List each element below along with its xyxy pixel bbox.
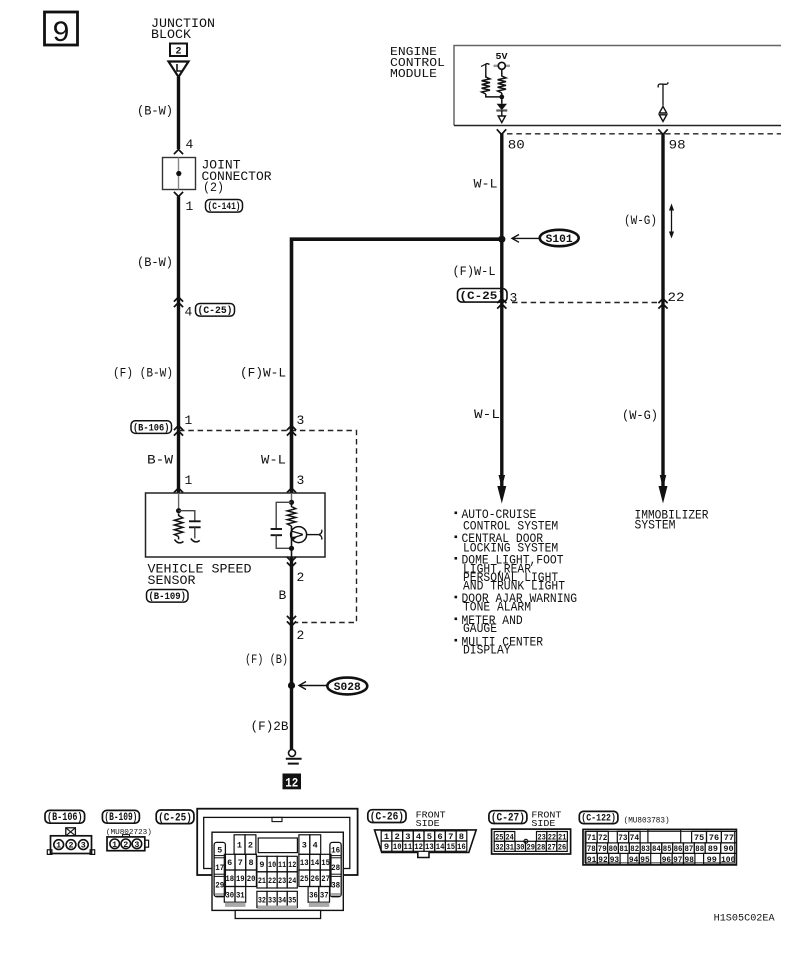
svg-text:75: 75 (694, 834, 704, 843)
svg-text:94: 94 (629, 856, 638, 865)
svg-text:1: 1 (237, 842, 242, 851)
connector face C-26 label (368, 810, 446, 829)
svg-text:93: 93 (610, 856, 619, 865)
svg-text:90: 90 (723, 845, 733, 854)
svg-text:95: 95 (640, 856, 649, 865)
svg-text:(F)2B: (F)2B (251, 719, 289, 734)
svg-text:(F) (B-W): (F) (B-W) (113, 366, 173, 381)
ECM pin 80 (497, 129, 525, 152)
dashed C-25 connector line (512, 302, 658, 304)
svg-text:87: 87 (685, 845, 694, 854)
connector C-25 crossing, pin 4 (174, 297, 193, 320)
connector face C-25 housing (212, 832, 343, 918)
sensor internal: load resistor right (287, 493, 295, 526)
svg-text:10: 10 (268, 861, 276, 870)
svg-text:4: 4 (186, 137, 194, 152)
svg-text:16: 16 (331, 846, 340, 856)
C-26 pin cells (1-8 / 9-16) (381, 831, 467, 852)
wire label B-W (147, 453, 173, 468)
svg-text:19: 19 (236, 875, 245, 884)
svg-text:(C-122): (C-122) (581, 813, 616, 825)
svg-text:72: 72 (598, 834, 607, 843)
svg-text:(W-G): (W-G) (624, 213, 657, 228)
svg-text:84: 84 (652, 845, 661, 854)
svg-text:78: 78 (587, 845, 596, 854)
wire label (B-W) upper (137, 104, 173, 119)
diagram code (714, 913, 776, 925)
junction block tab symbol (triangle) (169, 62, 189, 78)
svg-text:S101: S101 (546, 234, 573, 246)
svg-text:(B-109): (B-109) (104, 812, 137, 824)
svg-text:24: 24 (288, 877, 296, 886)
svg-text:11: 11 (404, 842, 413, 852)
svg-text:BLOCK: BLOCK (151, 27, 191, 42)
C-25 pin cells row 1 (1,2 / blank / 3,4) (234, 835, 321, 855)
svg-text:12: 12 (414, 842, 423, 852)
svg-text:16: 16 (457, 842, 466, 852)
wire label (B-W) lower (137, 255, 173, 270)
wire label W-L lower (474, 407, 500, 422)
svg-text:(F)W-L: (F)W-L (240, 366, 286, 381)
svg-text:B-W: B-W (147, 453, 173, 468)
svg-text:28: 28 (537, 843, 545, 852)
pin 4 of joint connector (174, 137, 194, 154)
svg-text:83: 83 (641, 845, 650, 854)
svg-text:15: 15 (321, 859, 330, 868)
svg-text:(B-W): (B-W) (137, 255, 173, 270)
svg-text:9: 9 (384, 842, 389, 852)
wire B from sensor pin 2 (290, 557, 293, 750)
svg-text:7: 7 (238, 859, 243, 868)
svg-text:3: 3 (297, 473, 305, 488)
wire W-G from ECM pin 98 (661, 133, 664, 487)
internal resistor (left branch) (481, 64, 504, 100)
svg-text:71: 71 (587, 834, 596, 843)
svg-text:4: 4 (185, 305, 193, 320)
svg-text:13: 13 (300, 859, 309, 868)
C-25 pin cells row 2 (6-8 / 9-12 / 13-15) (224, 854, 331, 872)
connector face C-25 outer shell (197, 809, 357, 875)
svg-text:3: 3 (81, 842, 86, 851)
svg-text:80: 80 (508, 138, 525, 153)
connector face C-25 label (156, 810, 194, 825)
svg-text:SIDE: SIDE (416, 818, 440, 829)
pin 1 of speed sensor (174, 473, 193, 493)
svg-text:(C-25): (C-25) (158, 813, 192, 825)
svg-text:1: 1 (185, 413, 193, 428)
wire W-L from ECM pin 80 (500, 133, 503, 487)
svg-text:8: 8 (249, 859, 254, 868)
wire B-W (junction block to joint connector) (177, 77, 180, 149)
svg-text:5: 5 (217, 846, 222, 856)
svg-text:GAUGE: GAUGE (463, 622, 497, 636)
svg-text:(B-106): (B-106) (47, 812, 83, 824)
svg-text:37: 37 (320, 891, 329, 900)
svg-text:32: 32 (258, 896, 266, 905)
svg-text:22: 22 (668, 290, 685, 305)
connector B-109 crossing, pin 2 (287, 616, 304, 643)
wire label B (279, 588, 287, 603)
wire label (F)W-L (middle) (240, 366, 286, 381)
splice S028 (288, 678, 367, 695)
ECM internal connector at pin 98 (658, 82, 668, 121)
svg-text:21: 21 (258, 877, 266, 886)
svg-text:27: 27 (321, 875, 330, 884)
connector face B-109 (106, 829, 152, 851)
svg-text:23: 23 (278, 877, 286, 886)
internal diode (496, 93, 507, 123)
svg-text:4: 4 (313, 842, 318, 851)
svg-text:1: 1 (186, 199, 194, 214)
svg-text:(C-141): (C-141) (208, 201, 241, 213)
svg-text:26: 26 (558, 843, 566, 852)
destination list (W-L) (455, 508, 578, 658)
svg-text:31: 31 (506, 843, 514, 852)
svg-text:89: 89 (708, 845, 718, 854)
svg-text:SENSOR: SENSOR (148, 573, 196, 588)
wire label W-L upper (474, 177, 498, 192)
svg-text:2: 2 (297, 570, 305, 585)
svg-text:14: 14 (311, 859, 320, 868)
svg-text:33: 33 (268, 896, 276, 905)
svg-text:(MU802723): (MU802723) (106, 829, 152, 837)
joint connector label (202, 158, 272, 196)
svg-text:12: 12 (288, 861, 296, 870)
svg-text:26: 26 (311, 875, 320, 884)
svg-text:2: 2 (69, 842, 74, 851)
page number box 9 (45, 12, 78, 51)
connector face B-109 label (102, 810, 139, 824)
svg-text:9: 9 (259, 861, 264, 870)
connector face C-27 body (492, 829, 571, 854)
svg-text:98: 98 (685, 856, 694, 865)
connector face B-106 label (45, 810, 85, 824)
svg-text:2: 2 (297, 628, 305, 643)
pin 2 of speed sensor (287, 557, 304, 585)
sensor internal: pull-up resistor left (174, 493, 183, 543)
svg-text:(F)W-L: (F)W-L (453, 264, 496, 279)
svg-text:86: 86 (674, 845, 683, 854)
connector B-106 crossing, pin 1 (174, 413, 193, 436)
svg-text:1: 1 (112, 841, 117, 850)
wire label (F)2B (251, 719, 289, 734)
wire W-L horizontal from splice S101 (292, 239, 503, 493)
svg-text:88: 88 (695, 845, 704, 854)
svg-text:(C-26): (C-26) (370, 812, 404, 824)
engine control module box (454, 46, 781, 126)
svg-text:25: 25 (300, 875, 309, 884)
ground ref box 12 (283, 774, 302, 791)
svg-text:81: 81 (619, 845, 628, 854)
svg-text:(W-G): (W-G) (622, 408, 658, 423)
wire label (F)(B) (245, 652, 288, 667)
svg-text:(MU803783): (MU803783) (624, 817, 670, 826)
svg-text:30: 30 (225, 891, 234, 900)
svg-text:27: 27 (547, 843, 555, 852)
dashed ECM connector line (507, 133, 781, 135)
vehicle speed sensor box (146, 493, 326, 557)
C-122 pin cells row 1 (586, 830, 736, 843)
svg-text:DISPLAY: DISPLAY (463, 644, 511, 658)
wire label (W-G) lower (622, 408, 658, 423)
svg-text:15: 15 (446, 842, 455, 852)
svg-text:30: 30 (516, 843, 524, 852)
svg-text:3: 3 (510, 291, 518, 306)
wire label (F)W-L (right) (453, 264, 496, 279)
svg-text:(F) (B): (F) (B) (245, 652, 288, 667)
svg-text:20: 20 (247, 875, 256, 884)
svg-text:MODULE: MODULE (390, 67, 437, 81)
svg-text:B: B (279, 588, 287, 603)
splice S101 (498, 230, 579, 246)
svg-text:11: 11 (278, 861, 286, 870)
svg-text:92: 92 (598, 856, 607, 865)
svg-text:3: 3 (134, 841, 139, 850)
C-25 pin cells row 3 (18-20 / 21-24 / 25-27) (224, 870, 331, 888)
svg-text:32: 32 (495, 843, 503, 852)
connector ref C-25 (left) (196, 304, 235, 318)
svg-text:(B-W): (B-W) (137, 104, 173, 119)
svg-text:(C-27): (C-27) (491, 813, 525, 825)
svg-text:99: 99 (707, 856, 717, 865)
ground symbol (286, 750, 302, 764)
svg-text:12: 12 (285, 776, 298, 790)
connector C-25 crossing, pin 3 (458, 289, 518, 309)
svg-text:(2): (2) (203, 180, 224, 195)
svg-text:H1S05C02EA: H1S05C02EA (714, 913, 776, 925)
svg-text:22: 22 (268, 877, 276, 886)
svg-text:76: 76 (709, 834, 719, 843)
arrow to immobilizer (659, 475, 668, 504)
svg-text:13: 13 (425, 842, 434, 852)
connector face C-122 label (579, 811, 669, 825)
svg-text:29: 29 (527, 843, 535, 852)
svg-text:34: 34 (278, 896, 286, 905)
svg-text:38: 38 (331, 881, 340, 891)
connector face C-27 label (489, 810, 562, 829)
wire label (W-G) upper (624, 213, 657, 228)
sensor internal: output transistor (289, 526, 322, 557)
svg-text:97: 97 (673, 856, 682, 865)
destination label immobilizer (635, 509, 709, 533)
svg-text:29: 29 (215, 881, 224, 891)
svg-text:(B-106): (B-106) (133, 422, 170, 434)
svg-text:73: 73 (618, 834, 627, 843)
svg-text:36: 36 (309, 891, 318, 900)
svg-text:3: 3 (297, 413, 305, 428)
pin 1 of joint connector (174, 192, 194, 214)
sensor internal: capacitor left (179, 511, 201, 542)
svg-text:(B-109): (B-109) (148, 591, 186, 603)
svg-text:(C-25): (C-25) (198, 305, 233, 317)
svg-text:14: 14 (436, 842, 445, 852)
svg-text:28: 28 (331, 863, 340, 873)
connector C-25 crossing, pin 22 (658, 290, 684, 309)
connector face C-122 body (583, 829, 736, 865)
arrow to body systems (497, 475, 506, 504)
svg-text:W-L: W-L (474, 177, 498, 192)
C-122 pin cells row 2 (586, 843, 736, 854)
svg-text:W-L: W-L (261, 453, 286, 468)
wire label (F)(B-W) (113, 366, 173, 381)
svg-text:3: 3 (302, 842, 307, 851)
svg-text:W-L: W-L (474, 407, 500, 422)
C-25 left side cavity column (5,17,29) (214, 842, 225, 896)
connector ref B-106 (131, 421, 172, 435)
junction block connector box 2 (170, 44, 187, 58)
svg-text:5V: 5V (496, 51, 508, 62)
engine control module label (390, 45, 445, 81)
svg-text:18: 18 (225, 875, 234, 884)
svg-text:100: 100 (721, 856, 735, 865)
connector ref B-109 (147, 590, 189, 604)
C-25 right side cavity column (16,28,38) (330, 842, 341, 896)
svg-text:9: 9 (52, 17, 70, 51)
svg-text:1: 1 (185, 473, 193, 488)
svg-text:74: 74 (630, 834, 640, 843)
C-122 pin cells row 3 (586, 853, 737, 865)
svg-text:82: 82 (630, 845, 639, 854)
svg-text:SIDE: SIDE (531, 818, 555, 829)
sensor internal: capacitor right (271, 502, 292, 548)
pin 3 of speed sensor (287, 473, 304, 493)
5V supply node (494, 51, 511, 74)
C-25 pin cells row 4 (30,31 / 32-35 / 36,37) (224, 887, 329, 910)
connector face B-106 (47, 828, 94, 855)
svg-text:1: 1 (56, 842, 61, 851)
svg-text:6: 6 (227, 859, 232, 868)
connector B-106 crossing, pin 3 (287, 413, 304, 436)
svg-text:91: 91 (587, 856, 596, 865)
svg-text:79: 79 (598, 845, 607, 854)
dashed harness boundary B-106 (179, 431, 357, 623)
svg-text:98: 98 (669, 138, 686, 153)
svg-text:2: 2 (175, 47, 181, 58)
svg-text:10: 10 (393, 842, 402, 852)
junction block label (151, 16, 215, 42)
svg-text:85: 85 (663, 845, 672, 854)
C-27 pin cells (494, 832, 567, 853)
svg-text:2: 2 (248, 842, 253, 851)
wire label W-L (middle) (261, 453, 286, 468)
svg-text:2: 2 (123, 841, 128, 850)
svg-text:S028: S028 (334, 682, 361, 694)
direction arrow (both ways) (669, 204, 674, 239)
internal resistor (5V pull-up) (498, 74, 506, 93)
svg-text:17: 17 (215, 863, 224, 873)
joint connector C-141 box (163, 158, 196, 190)
vehicle speed sensor label (148, 562, 252, 589)
svg-text:35: 35 (288, 896, 296, 905)
svg-text:SYSTEM: SYSTEM (635, 519, 676, 533)
wire B-W (joint connector to C-25) (177, 197, 180, 494)
connector ref C-141 (206, 200, 243, 214)
connector face C-26 body (375, 830, 477, 858)
svg-text:31: 31 (236, 891, 245, 900)
svg-text:96: 96 (662, 856, 671, 865)
svg-text:77: 77 (724, 834, 734, 843)
svg-text:TONE ALARM: TONE ALARM (463, 600, 531, 614)
ECM pin 98 (658, 129, 685, 152)
svg-text:80: 80 (609, 845, 618, 854)
